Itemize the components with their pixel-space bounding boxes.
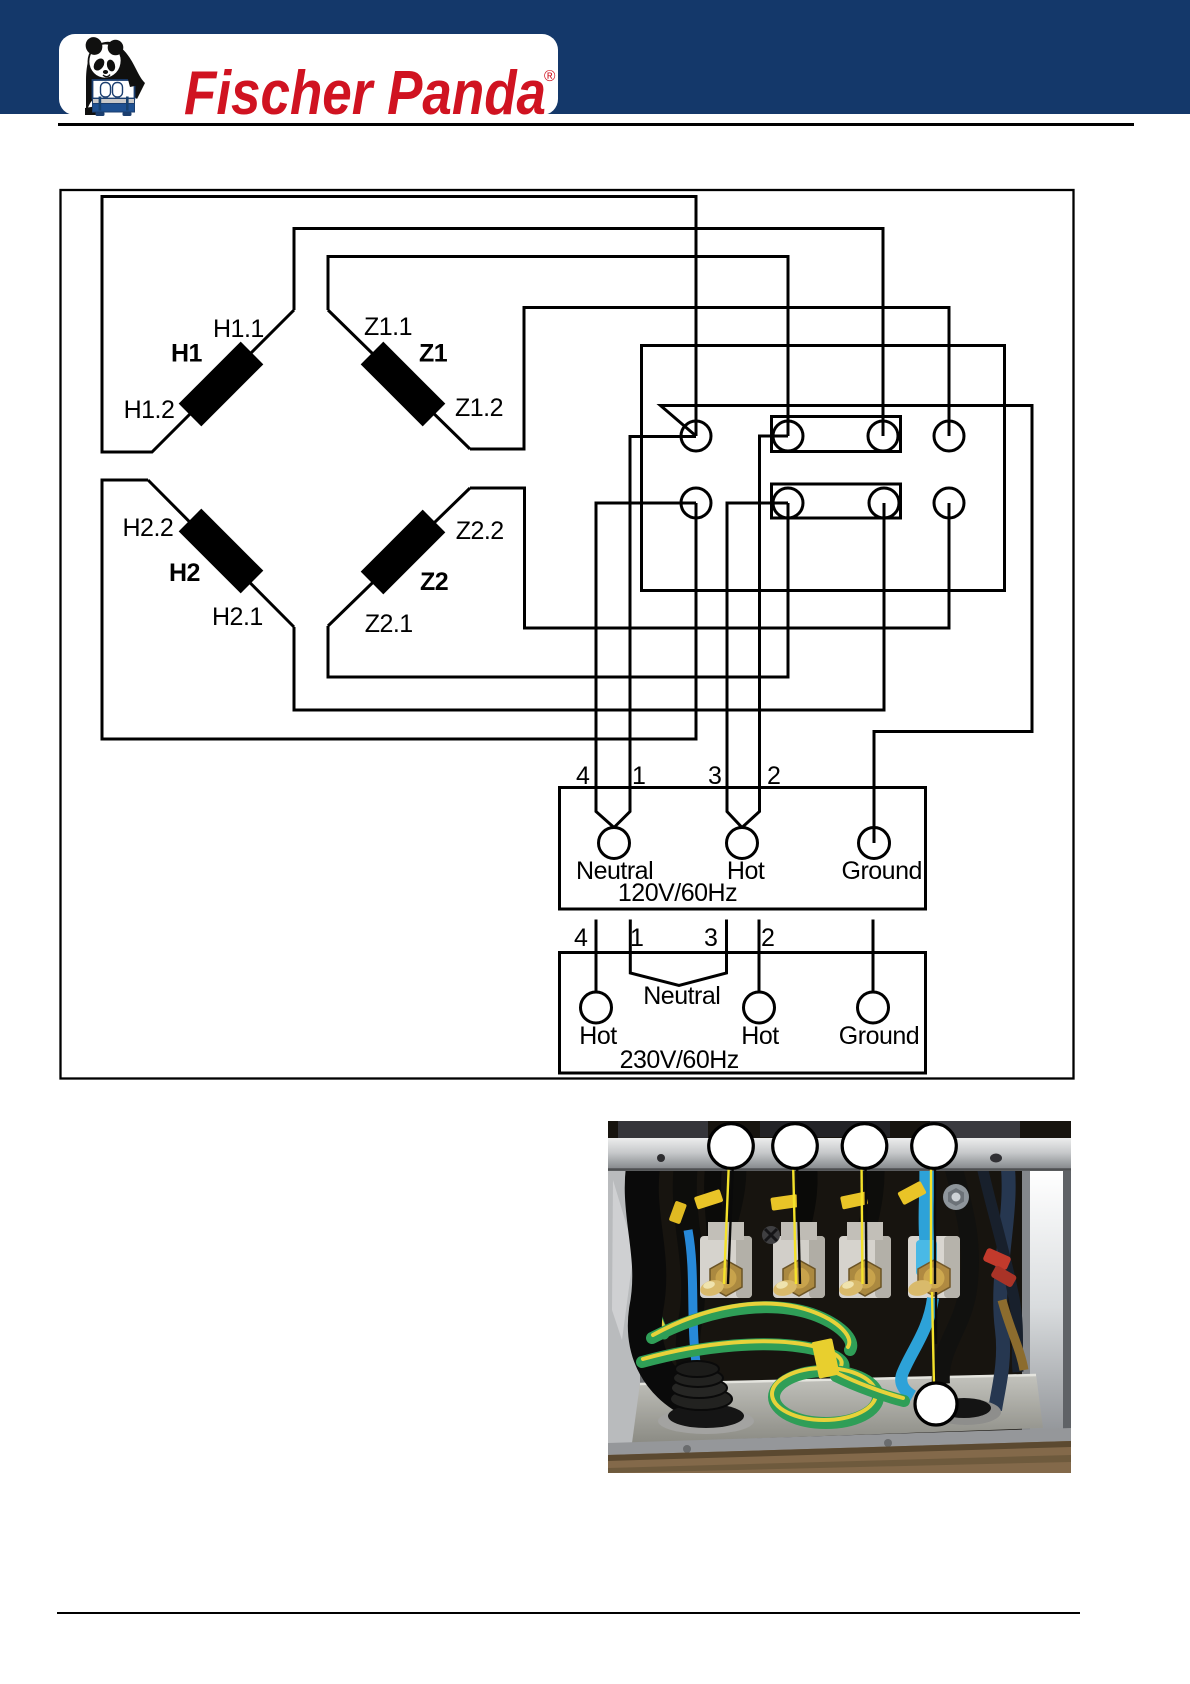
lid screw holes <box>657 1154 665 1162</box>
cable gland bottom left <box>658 1361 754 1434</box>
ochre wire <box>1002 1300 1024 1370</box>
terminal C7 <box>869 488 899 518</box>
terminal C1 <box>681 421 711 451</box>
svg-text:4: 4 <box>574 924 588 952</box>
panda body <box>86 42 145 115</box>
230V stub ground <box>872 920 875 993</box>
yellow tag on ground wire <box>811 1338 839 1379</box>
top dark strip blobs <box>618 1121 708 1141</box>
panda eye patch right <box>106 59 117 73</box>
brass stud 3 <box>837 1260 881 1298</box>
callout circle 1 <box>709 1124 754 1169</box>
logo box (Fischer Panda) <box>0 0 1190 150</box>
leader line 1 <box>724 1160 733 1284</box>
230V stub wire 1 + neutral chevron <box>630 920 726 986</box>
leader line 3 <box>862 1160 867 1284</box>
230V Hot1 terminal <box>581 992 612 1023</box>
svg-text:Z1.1: Z1.1 <box>364 313 412 341</box>
230V Ground terminal <box>858 992 889 1023</box>
brass stud 4 <box>906 1260 950 1298</box>
svg-text:2: 2 <box>767 762 780 790</box>
cable gland bottom right <box>931 1399 1001 1425</box>
svg-text:Z2.1: Z2.1 <box>365 610 413 638</box>
panda ear right <box>108 40 124 56</box>
wire H1.2 loop <box>102 197 696 453</box>
photo background <box>608 1121 1071 1473</box>
panda muzzle <box>103 70 108 74</box>
terminal C3 <box>868 421 898 451</box>
brass stud 2 <box>771 1260 815 1298</box>
diagram outer border <box>61 190 1074 1079</box>
120V Ground terminal <box>859 828 890 859</box>
hex bolt top right <box>943 1184 969 1210</box>
rear black cables to studs <box>724 1152 737 1240</box>
svg-text:H1.1: H1.1 <box>213 315 264 343</box>
svg-text:230V/60Hz: 230V/60Hz <box>620 1046 739 1074</box>
red cable markers <box>982 1247 1011 1270</box>
panda hind foot <box>85 106 98 115</box>
bus bar link C6-C7 <box>772 484 901 518</box>
wiring schematic <box>0 0 1190 1120</box>
svg-text:H2.2: H2.2 <box>123 514 174 542</box>
svg-text:Z1: Z1 <box>419 340 448 368</box>
callout circle 3 <box>842 1124 887 1169</box>
terminal box photo <box>608 1121 1071 1473</box>
terminal C5 <box>681 488 711 518</box>
terminal C2 <box>773 421 803 451</box>
wire 4 from C5 to Neutral <box>596 503 696 828</box>
wire Z1.1 to C2 <box>328 257 788 437</box>
wire H2.1 to C7 <box>294 503 884 710</box>
ground wire tail upper left <box>650 1247 666 1334</box>
ground wire from C1 <box>661 406 1033 844</box>
svg-text:Z2: Z2 <box>420 568 448 596</box>
left cable bundle <box>642 1150 698 1404</box>
wire H2.2 loop to C5 <box>102 480 696 739</box>
svg-text:Hot: Hot <box>579 1022 617 1050</box>
svg-text:Hot: Hot <box>741 1022 779 1050</box>
svg-text:4: 4 <box>576 762 590 790</box>
callout circle 4 <box>912 1124 957 1169</box>
header rule <box>58 123 1134 126</box>
winding Z1 <box>372 353 434 415</box>
winding H2 <box>190 520 252 582</box>
terminal strip enclosure <box>642 346 1005 591</box>
yellow cable tags <box>694 1189 724 1210</box>
terminal block 2 <box>773 1222 825 1298</box>
svg-text:Neutral: Neutral <box>643 982 720 1010</box>
panda ear left <box>83 34 105 57</box>
120V Neutral terminal <box>599 828 630 859</box>
svg-text:H1: H1 <box>171 340 203 368</box>
panda head <box>86 41 125 81</box>
svg-text:3: 3 <box>704 924 717 952</box>
winding H1 <box>190 353 252 415</box>
wire Z2.2 to C8 <box>470 488 949 628</box>
dark blue cable right <box>995 1152 1009 1410</box>
svg-text:Z1.2: Z1.2 <box>455 394 503 422</box>
bronze rail <box>608 1441 1071 1473</box>
wire Z1 diagonal <box>328 310 470 449</box>
terminal block 1 <box>700 1222 752 1298</box>
120V Hot terminal <box>727 828 758 859</box>
terminal block 4 <box>908 1236 960 1298</box>
svg-text:3: 3 <box>708 762 721 790</box>
230V stub wire 4 <box>595 920 598 993</box>
svg-text:Ground: Ground <box>839 1022 919 1050</box>
left frame <box>608 1171 648 1445</box>
230V stub wire 2 <box>758 920 761 993</box>
generator box of logo <box>93 80 135 99</box>
svg-text:H2.1: H2.1 <box>212 603 263 631</box>
bottom plate <box>632 1374 1043 1443</box>
wire 3 from C6 to Hot <box>727 503 788 828</box>
blue cable over block4 <box>926 1150 927 1242</box>
callout circle 5 <box>915 1383 957 1425</box>
winding Z2 <box>372 521 434 583</box>
terminal C6 <box>773 488 803 518</box>
panda front leg <box>126 68 139 87</box>
wire H1.1 to C3 <box>294 229 883 437</box>
chrome lid band <box>608 1138 1071 1171</box>
230V Hot2 terminal <box>744 992 775 1023</box>
svg-text:H2: H2 <box>169 559 200 587</box>
callout circle 2 <box>773 1124 818 1169</box>
footer rule <box>57 1612 1080 1614</box>
wire Z2 diagonal <box>328 488 470 626</box>
white rounded logo plate <box>59 34 558 115</box>
svg-text:Ground: Ground <box>842 857 922 885</box>
phillips screw <box>762 1226 780 1244</box>
terminal block 3 <box>839 1222 891 1298</box>
svg-text:120V/60Hz: 120V/60Hz <box>618 879 737 907</box>
svg-text:2: 2 <box>761 924 774 952</box>
wire Z2.1 to C6 <box>328 503 788 677</box>
230V connector box <box>560 953 926 1074</box>
svg-text:Z2.2: Z2.2 <box>456 517 504 545</box>
frame bottom lip <box>608 1428 1071 1462</box>
brass stud 1 <box>698 1260 742 1298</box>
ground wire green/yellow <box>642 1304 904 1423</box>
panda eye patch left <box>91 56 106 72</box>
svg-text:1: 1 <box>632 762 645 790</box>
terminal C8 <box>934 488 964 518</box>
terminal C4 <box>934 421 964 451</box>
wire Z1.2 to C4 <box>470 308 949 450</box>
svg-text:1: 1 <box>630 924 643 952</box>
wire H2 diagonal <box>148 480 294 627</box>
blue wire in bundle <box>688 1230 700 1388</box>
wire 1 from C1 to Neutral <box>614 437 696 828</box>
wire 2 from C2 to Hot <box>742 436 788 828</box>
right bright frame <box>1022 1171 1063 1443</box>
svg-text:H1.2: H1.2 <box>124 396 175 424</box>
header navy bar <box>0 0 1190 114</box>
120V connector box <box>560 788 926 910</box>
leader line 4 <box>931 1160 936 1386</box>
leader line 2 <box>793 1160 800 1284</box>
bus bar link C2-C3 <box>772 417 901 452</box>
